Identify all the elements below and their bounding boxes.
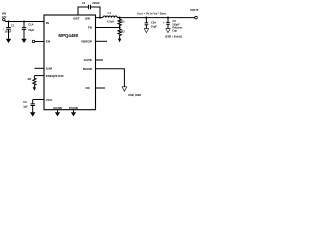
- node C1A tap: [23, 20, 25, 22]
- svg-text:EN: EN: [46, 40, 51, 44]
- svg-text:ILIM: ILIM: [46, 67, 53, 71]
- wire FREQ/SYNC to R3: [34, 75, 44, 77]
- wire GATE stub: [96, 59, 104, 61]
- svg-text:NC: NC: [86, 86, 91, 90]
- svg-text:R2: R2: [121, 29, 125, 33]
- IC U1 MPQ4480 box: [44, 15, 96, 110]
- svg-text:C2: C2: [173, 19, 177, 23]
- svg-text:R1: R1: [121, 19, 125, 23]
- wire C4 to SW node: [91, 7, 101, 18]
- svg-text:VDROP: VDROP: [81, 39, 92, 43]
- wire EN terminal to EN pin: [35, 41, 44, 43]
- wire L1 to output rail and VOUT: [117, 17, 195, 19]
- svg-text:4.7µH: 4.7µH: [107, 19, 114, 23]
- wire FB to divider: [96, 27, 120, 29]
- svg-text:100µF: 100µF: [4, 31, 11, 34]
- node L1/R1: [119, 17, 121, 19]
- node C2 tap: [167, 17, 169, 19]
- svg-text:VCC: VCC: [46, 98, 53, 102]
- capacitor C1A: [22, 22, 35, 39]
- wire VCC to C3: [33, 99, 44, 101]
- capacitor C3: [23, 100, 35, 113]
- EN terminal: [32, 40, 35, 43]
- capacitor C2A: [145, 18, 158, 29]
- VOUT terminal: [195, 16, 198, 19]
- inductor L1: [103, 11, 117, 24]
- svg-text:BST: BST: [73, 16, 79, 20]
- wire BST up and over to C4: [78, 7, 89, 15]
- svg-text:10µF: 10µF: [151, 24, 157, 28]
- ground arrow PGND: [71, 110, 76, 117]
- svg-text:VIN: VIN: [2, 12, 6, 16]
- ground arrow R3: [33, 87, 36, 91]
- svg-text:C1A: C1A: [28, 23, 33, 27]
- svg-text:USB_GND: USB_GND: [128, 93, 141, 97]
- capacitor C1: [3, 22, 15, 39]
- svg-text:GATE: GATE: [84, 58, 92, 62]
- svg-text:PGND: PGND: [69, 106, 79, 110]
- svg-text:R3: R3: [28, 77, 32, 81]
- wire ILIM stub: [35, 67, 45, 69]
- ground C1A: [21, 39, 26, 43]
- ground C1: [6, 39, 11, 43]
- svg-text:RGND: RGND: [83, 67, 93, 71]
- svg-text:MPQ4480: MPQ4480: [58, 33, 78, 38]
- svg-text:SW: SW: [85, 16, 90, 20]
- ground arrow R2: [118, 39, 121, 43]
- ground arrow C3: [30, 112, 35, 116]
- svg-text:L1: L1: [108, 11, 112, 15]
- wire VIN to IN pin: [5, 20, 44, 21]
- node C1 tap: [7, 20, 9, 22]
- ground arrow USB_GND: [122, 87, 127, 91]
- capacitor C2 (polymer, polarized): [163, 18, 182, 39]
- svg-text:AGND: AGND: [53, 106, 63, 110]
- svg-text:FREQ/SYNC: FREQ/SYNC: [46, 74, 65, 78]
- svg-text:C4: C4: [82, 1, 86, 5]
- svg-text:(ESR ≈ 50mΩ): (ESR ≈ 50mΩ): [165, 35, 182, 38]
- resistor R1: [118, 18, 125, 28]
- svg-text:VOUT: VOUT: [190, 8, 199, 12]
- resistor R2: [118, 28, 125, 39]
- capacitor C4: [82, 1, 100, 9]
- svg-text:Cap: Cap: [172, 29, 177, 33]
- ground arrow C2A: [144, 29, 148, 33]
- wire NC stub: [96, 87, 106, 89]
- ground arrow C2: [166, 29, 170, 33]
- VIN terminal: [3, 18, 5, 20]
- svg-text:C1: C1: [11, 23, 15, 27]
- node C4/SW junction: [99, 17, 101, 19]
- wire VDROP stub: [96, 40, 108, 42]
- svg-text:1µF: 1µF: [23, 105, 28, 109]
- svg-text:12V: 12V: [2, 15, 7, 19]
- node FB junction: [119, 26, 121, 28]
- resistor R3: [28, 76, 36, 88]
- wire SW pin to L1: [96, 17, 103, 19]
- svg-text:22µF: 22µF: [28, 28, 34, 32]
- ground arrow AGND: [55, 110, 60, 117]
- node C2A tap: [145, 17, 147, 19]
- svg-text:C2A: C2A: [151, 20, 156, 24]
- svg-text:C3: C3: [23, 100, 27, 104]
- svg-text:220nF: 220nF: [92, 1, 100, 5]
- wire RGND to USB_GND arrow: [96, 69, 125, 87]
